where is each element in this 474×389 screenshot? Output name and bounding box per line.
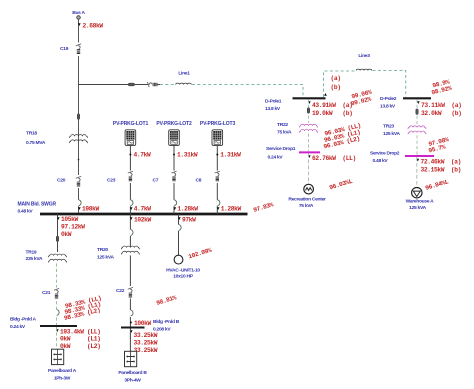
svg-text:PV-PRKG-LOT2: PV-PRKG-LOT2 — [156, 121, 192, 127]
wire LOT1 down — [129, 146, 131, 215]
wire TR20 to Pnld B — [129, 255, 131, 327]
svg-text:Bldg -Pnld A: Bldg -Pnld A — [10, 317, 37, 323]
fuse on HVAC feeder — [178, 225, 181, 231]
fuse C21 at Pnld A — [56, 310, 59, 317]
svg-text:1.28kW: 1.28kW — [177, 206, 198, 213]
cable C8 — [196, 171, 220, 184]
svg-text:19.0kW (b): 19.0kW (b) — [312, 110, 352, 117]
labels 98.33% rotated — [63, 295, 102, 322]
breaker on TR19 primary — [56, 236, 58, 242]
motor HVAC-UNIT1-10 — [166, 255, 200, 279]
line Line1 inductor — [176, 83, 192, 84]
svg-text:97.12kW: 97.12kW — [61, 224, 85, 231]
panelboard B symbol — [125, 351, 137, 366]
wire main bus to HVAC — [178, 214, 180, 255]
svg-text:TR23: TR23 — [383, 124, 394, 130]
svg-text:125 kVA: 125 kVA — [97, 255, 114, 261]
svg-text:C20: C20 — [57, 178, 66, 184]
svg-text:C23: C23 — [107, 178, 116, 184]
wire Pnld A to panelboard — [56, 327, 58, 349]
svg-text:0.48 kV: 0.48 kV — [373, 158, 389, 164]
label 1.31kW — [216, 152, 241, 159]
fuse LOT1 at bus — [130, 200, 133, 206]
wire TR18 to C20 — [78, 159, 80, 161]
svg-text:125 kVA: 125 kVA — [409, 205, 426, 211]
breaker on TR22 primary — [307, 108, 309, 114]
svg-text:0.48 kV: 0.48 kV — [18, 209, 34, 215]
wire main bus to TR19 — [57, 214, 59, 252]
svg-text:0kW (L2): 0kW (L2) — [60, 343, 100, 350]
svg-text:D-Pole1: D-Pole1 — [265, 99, 282, 105]
svg-text:0.24 kV: 0.24 kV — [10, 324, 26, 330]
svg-text:193.4kW (LL): 193.4kW (LL) — [60, 329, 100, 336]
label 102kW — [130, 217, 152, 224]
cable C21 — [42, 288, 59, 301]
bus Bldg-Pnld A — [10, 317, 77, 331]
bus Service Drop1 (magenta) — [266, 146, 320, 161]
cable C19 — [60, 43, 81, 57]
svg-text:43.91kW (a): 43.91kW (a) — [312, 102, 352, 109]
svg-text:Service Drop2: Service Drop2 — [370, 151, 400, 157]
bus D-Pole2 — [380, 96, 431, 110]
label 1.28kW at bus — [173, 206, 198, 213]
fuse at main bus (TR18 feeder) — [78, 200, 81, 206]
labels 33.25kW x3 — [130, 330, 158, 354]
label 4.7kW at bus — [130, 206, 151, 213]
svg-text:0kW (L1): 0kW (L1) — [60, 336, 100, 343]
svg-text:62.76kW (LL): 62.76kW (LL) — [312, 155, 356, 162]
D-Pole1 feeder down — [308, 101, 353, 117]
node Bus A — [72, 10, 85, 19]
wire LOT3 down — [216, 146, 218, 215]
transformer TR20 — [121, 246, 139, 254]
PV array PV-PRKG-LOT3 — [200, 121, 236, 145]
wire Bus A down to branch point — [78, 20, 80, 213]
label 72.46kW (a) / 32.15kW (b) — [416, 159, 461, 174]
bus MAIN Bld SWGR — [18, 202, 248, 215]
wire Service Drop1 to Recreation Center — [308, 154, 310, 185]
breaker on TR20 primary — [130, 230, 133, 236]
svg-text:C22: C22 — [116, 288, 125, 294]
svg-text:Bldg -Pnld B: Bldg -Pnld B — [153, 319, 180, 325]
load Warehouse A — [406, 188, 435, 212]
svg-text:MAIN Bld. SWGR: MAIN Bld. SWGR — [18, 202, 57, 208]
cable C20 — [57, 175, 81, 188]
svg-text:225 kVA: 225 kVA — [26, 256, 43, 262]
breaker on TR23 primary — [416, 109, 418, 115]
wire D-Pole2 to TR23 dashed — [416, 99, 418, 125]
svg-text:C19: C19 — [60, 46, 69, 52]
label 1.31kW — [173, 152, 198, 159]
transformer TR22 (magenta) — [300, 124, 318, 132]
svg-text:PV-PRKG-LOT1: PV-PRKG-LOT1 — [113, 121, 149, 127]
cable C22 — [116, 286, 133, 299]
cable C23 — [107, 171, 133, 184]
cable on Line1 — [147, 82, 157, 87]
wire D-Pole1 to TR22 dashed — [308, 99, 310, 123]
wire teal dashed Line1 to D-Pole1 — [192, 85, 303, 98]
svg-text:73.11kW (a): 73.11kW (a) — [421, 102, 461, 109]
svg-text:TR20: TR20 — [97, 247, 108, 253]
fuse C22 at Pnld B — [130, 310, 133, 317]
breaker CB (HV) on TR18 primary — [77, 114, 79, 120]
svg-text:4.7kW: 4.7kW — [134, 152, 151, 159]
svg-text:Warehouse A: Warehouse A — [406, 199, 435, 205]
svg-text:HVAC -UNIT1-10: HVAC -UNIT1-10 — [166, 268, 200, 274]
wire TR22 to Service Drop1 — [308, 134, 310, 152]
svg-text:Service Drop1: Service Drop1 — [266, 146, 296, 152]
wire TR23 to Service Drop2 — [416, 135, 418, 155]
breaker on Line1 — [128, 83, 134, 86]
svg-text:13.8 kV: 13.8 kV — [380, 104, 396, 110]
bus D-Pole1 — [265, 98, 326, 112]
svg-text:198kW: 198kW — [82, 206, 99, 213]
label 97kW — [178, 217, 196, 224]
D-Pole2 feeder down — [417, 101, 462, 117]
fuse LOT2 at bus — [173, 200, 176, 206]
panelboard A symbol — [52, 349, 64, 364]
svg-text:4.7kW: 4.7kW — [134, 206, 151, 213]
wire Service Drop2 to Warehouse A — [416, 157, 418, 188]
svg-text:PV-PRKG-LOT3: PV-PRKG-LOT3 — [200, 121, 236, 127]
labels 96.03% x3 rotated — [323, 122, 362, 150]
label 62.76kW (LL) — [308, 155, 356, 162]
svg-text:100kW: 100kW — [134, 320, 151, 327]
label 1.28kW at bus — [217, 206, 242, 213]
transformer TR19 — [49, 254, 67, 262]
svg-text:72.46kW (a): 72.46kW (a) — [421, 159, 461, 166]
line Line3 inductor — [356, 69, 372, 70]
svg-text:32.0kW (b): 32.0kW (b) — [421, 110, 461, 117]
svg-text:2.68kW: 2.68kW — [83, 23, 104, 30]
svg-text:1.31kW: 1.31kW — [220, 152, 241, 159]
svg-text:Line1: Line1 — [178, 71, 190, 77]
wire Pnld B to panelboard — [129, 329, 131, 352]
PV array PV-PRKG-LOT2 — [156, 121, 192, 145]
svg-text:1Ph-3W: 1Ph-3W — [54, 376, 71, 382]
svg-text:Bus A: Bus A — [72, 10, 85, 16]
wire teal dashed to Line1 inductor — [160, 84, 176, 86]
svg-text:0kW: 0kW — [61, 231, 72, 238]
svg-text:32.15kW (b): 32.15kW (b) — [421, 167, 461, 174]
svg-text:C8: C8 — [196, 178, 202, 184]
svg-text:1.28kW: 1.28kW — [221, 206, 242, 213]
load Recreation Center — [288, 184, 326, 209]
svg-text:33.25kW: 33.25kW — [134, 340, 158, 347]
svg-text:(b): (b) — [331, 84, 341, 91]
label 4.7kW — [129, 152, 151, 159]
PV array PV-PRKG-LOT1 — [113, 121, 149, 145]
label 105kW / 97.12kW / 0kW — [57, 216, 85, 238]
svg-text:102kW: 102kW — [134, 217, 151, 224]
svg-text:TR22: TR22 — [277, 122, 288, 128]
wire D-Pole1 up to Line3 — [324, 71, 356, 97]
labels 193.4kW (LL) / 0kW — [56, 329, 101, 351]
svg-text:(a): (a) — [331, 75, 341, 82]
svg-text:Recreation Center: Recreation Center — [288, 197, 326, 203]
svg-text:Line3: Line3 — [358, 53, 370, 59]
wire TR19 to Pnld A (1-phase, green dashed) — [56, 263, 58, 326]
label 100kW — [130, 320, 152, 327]
svg-text:TR18: TR18 — [26, 131, 37, 137]
svg-text:105kW: 105kW — [61, 216, 78, 223]
svg-text:13.8 kV: 13.8 kV — [265, 106, 281, 112]
svg-text:C7: C7 — [153, 178, 159, 184]
svg-text:1.31kW: 1.31kW — [177, 152, 198, 159]
svg-text:Panelboard A: Panelboard A — [48, 368, 77, 374]
cable C7 — [153, 171, 177, 184]
wire LOT2 down — [173, 146, 175, 215]
label 2.68 kW flow — [78, 23, 103, 30]
wire branch solid — [79, 84, 129, 86]
label 198kW flow into main bus — [78, 206, 100, 213]
transformer TR23 (magenta) — [408, 126, 426, 134]
svg-text:0.75 MVA: 0.75 MVA — [26, 140, 46, 146]
svg-text:C21: C21 — [42, 290, 51, 296]
wire main bus to TR20 — [129, 214, 131, 247]
svg-text:3Ph-4W: 3Ph-4W — [124, 378, 141, 384]
svg-text:D-Pole2: D-Pole2 — [380, 96, 397, 102]
svg-text:10x10 HP: 10x10 HP — [173, 274, 194, 280]
svg-text:Panelboard B: Panelboard B — [118, 370, 147, 376]
fuse LOT3 at bus — [217, 200, 220, 206]
transformer TR18 — [70, 135, 88, 143]
svg-text:75 kVA: 75 kVA — [277, 130, 292, 136]
svg-text:97kW: 97kW — [182, 217, 196, 224]
svg-text:TR19: TR19 — [26, 250, 37, 256]
bus Service Drop2 (magenta) — [370, 151, 434, 165]
wire Line3 to D-Pole2 — [373, 71, 406, 98]
svg-text:75 kVA: 75 kVA — [299, 203, 314, 209]
svg-text:125 kVA: 125 kVA — [383, 131, 400, 137]
bus Bldg-Pnld B — [121, 319, 180, 333]
arrow up at D-Pole1 — [324, 93, 327, 96]
svg-text:33.25kW: 33.25kW — [134, 332, 158, 339]
svg-text:0.24 kV: 0.24 kV — [268, 155, 284, 161]
